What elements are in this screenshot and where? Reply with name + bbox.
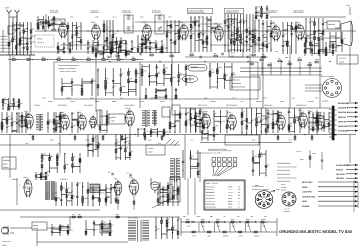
connector arrow (355, 116, 358, 118)
capacitor C163 (93, 223, 95, 224)
capacitor C137 (124, 138, 126, 139)
capacitor C96 (59, 117, 61, 118)
connector arrow (355, 195, 358, 197)
IF transformer T1 (124, 15, 133, 33)
resistor R128 (97, 85, 99, 88)
capacitor C91 (231, 74, 233, 75)
wire (51, 224, 53, 236)
svg-text:HOR-ENDST.: HOR-ENDST. (296, 104, 308, 107)
svg-text:BILDROHR: BILDROHR (338, 102, 349, 105)
wire (88, 149, 93, 151)
sync stage box (109, 114, 125, 124)
wire (149, 74, 156, 76)
wire (8, 22, 10, 55)
tube V20 (128, 179, 138, 196)
wire (86, 228, 94, 230)
svg-text:EL84: EL84 (179, 21, 183, 24)
capacitor C18 (109, 42, 111, 43)
wire (19, 119, 26, 121)
wire (167, 25, 171, 27)
wire (126, 51, 132, 53)
wire (216, 63, 218, 89)
junction (55, 198, 56, 199)
capacitor C126 (48, 158, 50, 159)
resistor R103 (92, 48, 94, 51)
junction (18, 120, 19, 121)
junction (107, 59, 108, 60)
wire (208, 134, 214, 136)
wire (135, 21, 200, 23)
wire (175, 88, 177, 98)
wire (256, 113, 261, 115)
junction (95, 50, 96, 51)
capacitor C62 (57, 48, 59, 49)
wire (199, 152, 201, 182)
svg-text:ANT-BUCHSE: ANT-BUCHSE (302, 195, 316, 198)
junction (323, 122, 324, 123)
wire (167, 228, 173, 230)
wire (128, 89, 136, 91)
resistor R3 (12, 38, 14, 41)
wire (56, 126, 61, 128)
svg-text:pppppp: pppppp (115, 182, 121, 184)
capacitor C29 (202, 34, 204, 35)
wire (55, 182, 57, 206)
capacitor C60 (87, 48, 89, 49)
wire (209, 63, 211, 89)
resistor R238 (56, 162, 58, 165)
wire (92, 186, 94, 206)
capacitor C155 (167, 198, 169, 199)
resistor R1 (8, 42, 10, 45)
wire (190, 16, 192, 52)
junction (231, 86, 232, 87)
resistor R54 (237, 33, 239, 36)
tube base diagram (p-base) (282, 192, 296, 206)
resistor R24 (80, 40, 82, 43)
junction (53, 28, 54, 29)
capacitor C115 (316, 117, 318, 118)
svg-text:NETZ 220V: NETZ 220V (302, 181, 313, 184)
wire (249, 14, 251, 52)
resistor R169 (121, 136, 123, 139)
wire (40, 172, 42, 180)
resistor R295 (246, 221, 249, 223)
junction (103, 46, 104, 47)
resistor R122 (102, 59, 105, 61)
capacitor C133 (189, 157, 191, 158)
wire (184, 135, 186, 180)
junction (87, 43, 88, 44)
junction (280, 67, 281, 68)
junction (99, 198, 100, 199)
svg-text:EB91: EB91 (91, 21, 95, 24)
capacitor C37 (246, 36, 248, 37)
wire (97, 152, 99, 154)
wire (308, 110, 310, 134)
resistor R96 (150, 54, 153, 56)
capacitor C123 (13, 99, 15, 100)
wire (318, 205, 358, 207)
junction (312, 114, 313, 115)
wire (213, 110, 215, 133)
resistor R101 (262, 56, 265, 58)
junction (71, 89, 72, 90)
wire (142, 38, 146, 40)
resistor R57 (246, 29, 248, 32)
capacitor C103 (190, 114, 192, 115)
wire (191, 20, 195, 22)
wire (100, 189, 107, 191)
wire (149, 40, 151, 53)
resistor R131 (105, 80, 107, 83)
wire (210, 16, 212, 52)
junction (236, 221, 237, 222)
junction (150, 130, 151, 131)
wire (175, 91, 177, 93)
connector arrow (355, 173, 358, 175)
junction (13, 102, 14, 103)
resistor R281 (166, 224, 168, 227)
junction (335, 47, 336, 48)
svg-text:SYNC-ABTR.: SYNC-ABTR. (124, 104, 135, 107)
wire (310, 34, 314, 36)
wire (12, 131, 17, 133)
wire (11, 112, 13, 133)
wire (87, 40, 89, 54)
audio output transformer (170, 177, 180, 202)
wire (347, 111, 358, 113)
tube V9 (60, 114, 70, 131)
junction (159, 189, 160, 190)
resistor R263 (82, 197, 84, 200)
junction (116, 42, 117, 43)
wire (151, 131, 158, 133)
tuner coil box (20, 38, 27, 44)
wire (185, 73, 187, 75)
resistor R256 (40, 175, 42, 178)
junction (163, 132, 164, 133)
svg-text:kkkkkk: kkkkkk (40, 178, 45, 181)
wire (167, 196, 169, 198)
wire (319, 50, 326, 52)
junction (299, 124, 300, 125)
resistor R243 (72, 157, 74, 160)
wire (145, 134, 152, 136)
wire (111, 37, 113, 53)
junction (199, 123, 200, 124)
junction (99, 122, 100, 123)
capacitor C142 (45, 173, 47, 174)
wire (56, 116, 61, 118)
capacitor C104 (194, 121, 196, 122)
wire (76, 182, 78, 206)
capacitor C61 (97, 44, 99, 45)
connector arrow (355, 120, 358, 122)
svg-text:mmmmmmmmmmmmmm: mmmmmmmmmmmmmm (277, 167, 297, 169)
svg-text:2222222: 2222222 (1, 38, 8, 41)
deflection unit box (225, 135, 259, 145)
tube V11 (89, 115, 97, 128)
rotation arrow (269, 190, 275, 192)
junction (262, 35, 263, 36)
wire (45, 14, 47, 31)
wire (174, 20, 176, 53)
junction (251, 120, 252, 121)
resistor R87 (325, 51, 327, 54)
junction (125, 142, 126, 143)
junction (201, 132, 202, 133)
connector arrow (355, 205, 358, 207)
wire (105, 184, 107, 204)
wire (163, 200, 168, 202)
wire (0, 51, 60, 53)
wire (63, 42, 65, 54)
wire (104, 49, 112, 51)
resistor R283 (172, 227, 174, 230)
junction (204, 134, 205, 135)
junction (30, 46, 31, 47)
capacitor C94 (47, 123, 49, 124)
junction (265, 124, 266, 125)
capacitor C114 (308, 112, 310, 113)
resistor R179 (99, 126, 101, 129)
junction (190, 126, 191, 127)
wire (49, 153, 51, 173)
junction (177, 30, 178, 31)
resistor R270 (167, 194, 169, 197)
capacitor C150 (87, 190, 89, 191)
wire (1, 112, 3, 133)
resistor R254 (129, 153, 131, 156)
wire (67, 200, 72, 202)
wire (109, 222, 111, 224)
wire (249, 54, 251, 108)
junction (113, 87, 114, 88)
wire (149, 81, 156, 83)
junction (191, 221, 192, 222)
wire (2, 98, 4, 110)
junction (117, 30, 118, 31)
resistor R252 (115, 149, 117, 152)
wire (174, 110, 176, 133)
svg-text:PHONO: PHONO (302, 205, 310, 208)
wire (161, 135, 163, 142)
wire (224, 14, 226, 52)
junction (109, 35, 110, 36)
junction (87, 42, 88, 43)
resistor R43 (190, 35, 192, 38)
resistor R113 (155, 45, 157, 48)
resistor R186 (163, 132, 165, 135)
wire (97, 68, 99, 96)
wire (262, 12, 268, 14)
resistor R219 (195, 123, 197, 126)
junction (217, 81, 218, 82)
connector arrow (355, 102, 358, 104)
wire (85, 220, 87, 236)
junction (251, 221, 252, 222)
wire (164, 73, 171, 75)
wire (179, 74, 186, 76)
svg-text:FOKUS: FOKUS (336, 168, 344, 171)
wire (182, 150, 184, 178)
wire (231, 82, 233, 84)
resistor R30 (111, 49, 113, 52)
resistor R299 (223, 231, 226, 233)
resistor R7 (23, 30, 25, 33)
wire (195, 113, 200, 115)
wire (225, 24, 228, 26)
resistor R148 (175, 96, 177, 99)
resistor R149 (175, 95, 177, 98)
wire (260, 108, 262, 135)
resistor R40 (178, 36, 180, 39)
resistor R290 (116, 216, 119, 218)
wire (319, 38, 323, 40)
resistor R261 (71, 195, 73, 198)
capacitor C118 (16, 123, 18, 124)
junction (17, 59, 18, 60)
wire (101, 220, 103, 236)
resistor R59 (252, 39, 254, 42)
wire (110, 46, 112, 58)
wire (35, 30, 356, 32)
junction (334, 134, 335, 135)
wire (178, 20, 180, 53)
junction (234, 26, 235, 27)
wire (283, 29, 287, 31)
wire (315, 43, 319, 45)
wire (142, 39, 146, 41)
wire (35, 172, 37, 180)
capacitor C59 (247, 56, 248, 58)
junction (167, 203, 168, 204)
wire (190, 150, 192, 178)
wire (61, 193, 66, 195)
svg-text:2.BILD-ZF: 2.BILD-ZF (122, 10, 132, 13)
junction (256, 114, 257, 115)
wire (263, 46, 267, 48)
resistor R184 (150, 131, 152, 134)
resistor R187 (169, 125, 171, 128)
junction (91, 80, 92, 81)
wire (36, 173, 41, 175)
wire (90, 11, 99, 13)
wire (116, 157, 121, 159)
capacitor C159 (67, 227, 69, 228)
capacitor C98 (71, 127, 73, 128)
junction (110, 184, 111, 185)
junction (247, 61, 248, 62)
junction (155, 230, 156, 231)
capacitor C120 (55, 124, 57, 125)
wire (261, 62, 263, 75)
wire (160, 192, 168, 194)
wire (210, 86, 217, 88)
junction (60, 116, 61, 117)
heater pin (193, 221, 195, 223)
junction (190, 155, 191, 156)
junction (167, 134, 168, 135)
connector arrow (355, 177, 358, 179)
wire (217, 78, 224, 80)
connector arrow (355, 191, 358, 193)
wire (316, 110, 318, 134)
junction (299, 125, 300, 126)
capacitor C95 (53, 128, 55, 129)
svg-text:00000000000000: 00000000000000 (277, 169, 290, 172)
resistor R74 (305, 38, 307, 41)
wire (203, 46, 207, 48)
resistor R11 (37, 26, 39, 29)
resistor R174 (47, 121, 49, 124)
capacitor C54 (311, 45, 313, 46)
resistor R228 (317, 122, 319, 125)
wire (42, 154, 50, 156)
wire (157, 128, 159, 137)
wire (113, 82, 121, 84)
wire (185, 56, 268, 58)
capacitor C23 (145, 47, 147, 48)
wire (24, 31, 28, 33)
tube V12 (125, 110, 135, 127)
junction (319, 30, 320, 31)
wire (100, 124, 107, 126)
wire (20, 25, 24, 27)
resistor R8 (26, 47, 28, 50)
resistor R104 (57, 46, 59, 49)
capacitor C38 (249, 39, 251, 40)
junction (155, 46, 156, 47)
wire (6, 112, 8, 133)
svg-text:VERT-ENDST.: VERT-ENDST. (226, 104, 238, 107)
capacitor C128 (79, 161, 81, 162)
capacitor C40 (266, 8, 268, 9)
wire (112, 68, 114, 96)
resistor R286 (101, 226, 103, 229)
resistor R132 (120, 88, 122, 91)
capacitor C49 (295, 26, 297, 27)
junction (119, 46, 120, 47)
junction (92, 52, 93, 53)
wire (314, 18, 316, 54)
wire (240, 14, 242, 52)
wire (265, 108, 267, 135)
junction (32, 59, 33, 60)
resistor R257 (45, 176, 47, 179)
resistor R39 (174, 41, 176, 44)
junction (49, 155, 50, 156)
junction (252, 31, 253, 32)
connector pin (217, 163, 221, 167)
wire (87, 135, 89, 157)
resistor R176 (53, 119, 55, 122)
wire (199, 112, 201, 114)
svg-text:HEIZUNG: HEIZUNG (338, 125, 347, 128)
wire (282, 22, 284, 54)
wire (270, 16, 346, 18)
junction (69, 216, 70, 217)
junction (277, 111, 278, 112)
wire (250, 45, 253, 47)
wire (253, 162, 260, 164)
wire (326, 52, 333, 54)
wire (250, 33, 253, 35)
wire (62, 51, 92, 53)
capacitor C84 (156, 67, 158, 68)
heater pin (224, 221, 226, 223)
